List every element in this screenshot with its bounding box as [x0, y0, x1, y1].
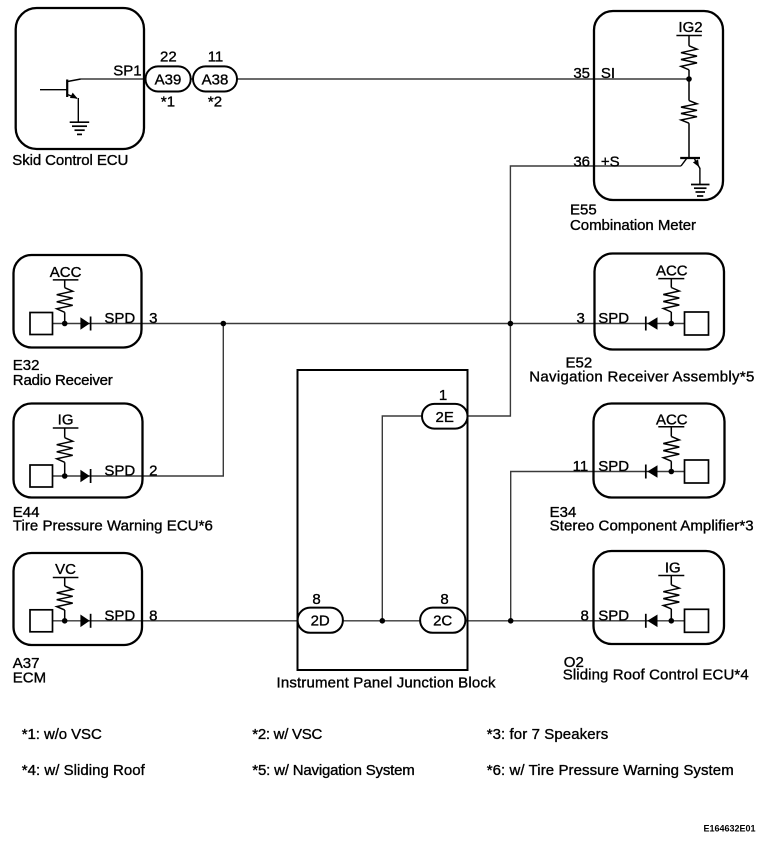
- svg-text:36: 36: [573, 153, 590, 170]
- svg-text:ACC: ACC: [656, 263, 688, 280]
- svg-text:E55: E55: [570, 202, 597, 219]
- svg-text:IG2: IG2: [678, 19, 702, 36]
- svg-text:SPD: SPD: [104, 463, 135, 480]
- svg-text:ACC: ACC: [50, 264, 82, 281]
- svg-text:1: 1: [439, 387, 447, 404]
- svg-text:8: 8: [581, 607, 589, 624]
- svg-text:2C: 2C: [433, 612, 452, 629]
- svg-text:Skid Control ECU: Skid Control ECU: [12, 152, 128, 169]
- svg-text:11: 11: [208, 48, 224, 65]
- svg-text:*6: w/ Tire Pressure Warning S: *6: w/ Tire Pressure Warning System: [487, 762, 734, 779]
- svg-text:35: 35: [573, 65, 590, 82]
- svg-text:3: 3: [149, 310, 157, 327]
- svg-text:Combination Meter: Combination Meter: [570, 217, 696, 234]
- svg-text:SPD: SPD: [104, 310, 135, 327]
- svg-text:VC: VC: [55, 561, 76, 578]
- svg-text:22: 22: [160, 48, 177, 65]
- svg-text:2E: 2E: [436, 409, 454, 426]
- svg-text:SPD: SPD: [598, 607, 629, 624]
- svg-text:Stereo Component Amplifier*3: Stereo Component Amplifier*3: [550, 518, 754, 535]
- svg-text:SPD: SPD: [598, 458, 629, 475]
- svg-text:11: 11: [573, 458, 589, 475]
- svg-text:*1: *1: [161, 94, 175, 111]
- svg-text:*4: w/ Sliding Roof: *4: w/ Sliding Roof: [22, 762, 146, 779]
- svg-text:8: 8: [440, 591, 448, 608]
- svg-text:3: 3: [576, 310, 584, 327]
- svg-text:*1: w/o VSC: *1: w/o VSC: [22, 726, 102, 743]
- svg-text:IG: IG: [58, 412, 74, 429]
- svg-text:*2: w/ VSC: *2: w/ VSC: [252, 726, 322, 743]
- svg-text:+S: +S: [601, 153, 620, 170]
- svg-text:SP1: SP1: [113, 63, 141, 80]
- svg-text:Navigation Receiver Assembly*5: Navigation Receiver Assembly*5: [529, 369, 754, 386]
- svg-text:Tire Pressure Warning ECU*6: Tire Pressure Warning ECU*6: [13, 518, 213, 535]
- svg-text:Radio Receiver: Radio Receiver: [13, 372, 113, 389]
- svg-text:IG: IG: [665, 560, 681, 577]
- svg-text:2D: 2D: [311, 612, 330, 629]
- svg-text:*5: w/ Navigation System: *5: w/ Navigation System: [252, 762, 414, 779]
- svg-text:E164632E01: E164632E01: [703, 824, 755, 834]
- svg-text:Instrument Panel Junction Bloc: Instrument Panel Junction Block: [277, 674, 497, 691]
- svg-text:ACC: ACC: [656, 411, 688, 428]
- svg-text:*2: *2: [208, 94, 222, 111]
- svg-text:2: 2: [149, 463, 157, 480]
- svg-text:*3: for 7 Speakers: *3: for 7 Speakers: [487, 726, 609, 743]
- svg-text:SI: SI: [601, 65, 615, 82]
- svg-text:SPD: SPD: [104, 607, 135, 624]
- svg-text:SPD: SPD: [598, 310, 629, 327]
- svg-text:A38: A38: [202, 71, 229, 88]
- svg-text:ECM: ECM: [13, 670, 46, 687]
- svg-text:8: 8: [312, 591, 320, 608]
- svg-text:Sliding Roof Control ECU*4: Sliding Roof Control ECU*4: [563, 667, 749, 684]
- svg-text:8: 8: [149, 607, 157, 624]
- svg-text:A39: A39: [155, 71, 182, 88]
